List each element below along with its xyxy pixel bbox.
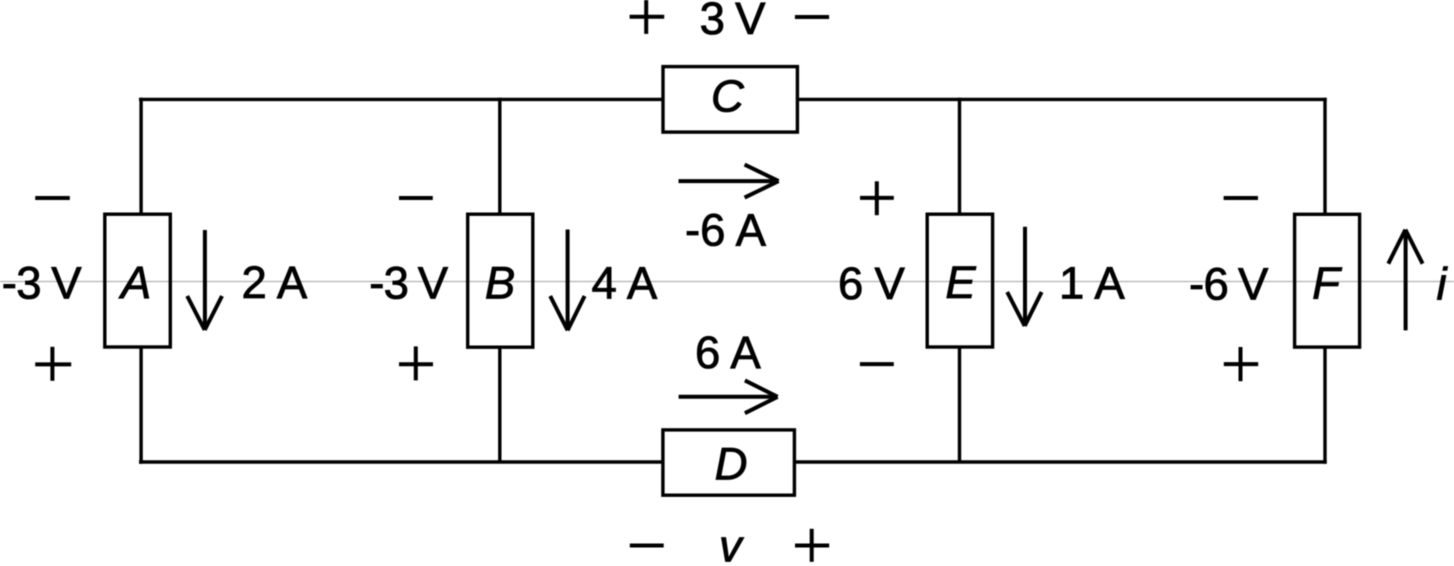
svg-text:3 V: 3 V (700, 0, 767, 44)
svg-text:E: E (945, 257, 976, 308)
svg-text:D: D (715, 439, 748, 490)
svg-text:6 V: 6 V (838, 258, 906, 309)
svg-text:F: F (1312, 258, 1342, 309)
svg-text:-6 V: -6 V (1189, 258, 1269, 309)
svg-text:4 A: 4 A (592, 258, 658, 309)
svg-text:C: C (711, 71, 745, 122)
svg-text:1 A: 1 A (1059, 257, 1125, 308)
svg-text:-6 A: -6 A (685, 204, 767, 255)
svg-text:2 A: 2 A (242, 257, 308, 308)
svg-text:-3 V: -3 V (369, 258, 449, 309)
svg-text:-3 V: -3 V (2, 258, 83, 309)
svg-text:v: v (719, 521, 744, 566)
svg-text:A: A (118, 257, 151, 308)
svg-text:B: B (485, 257, 515, 308)
svg-text:6 A: 6 A (695, 327, 761, 378)
